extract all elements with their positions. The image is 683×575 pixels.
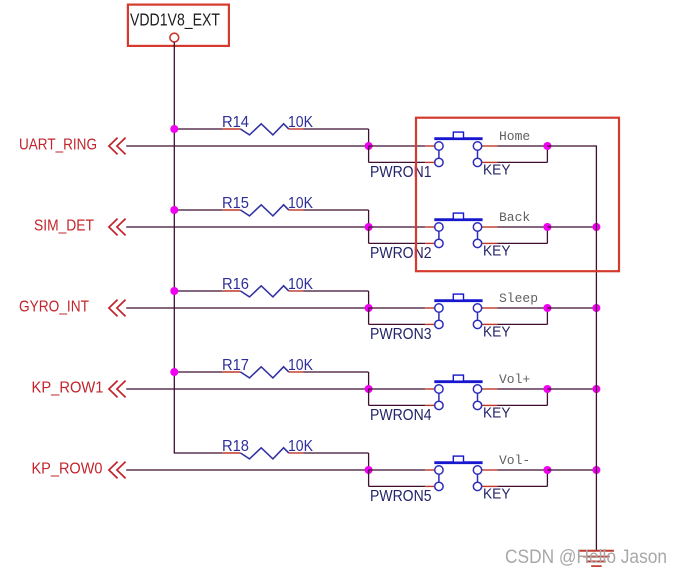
pushbutton switch PWRON1 (Home key) <box>425 132 497 166</box>
wire upper branch to switch pin 1 <box>369 145 426 147</box>
wire KP_ROW0 horizontal <box>126 469 368 471</box>
label key name Vol+ <box>499 372 530 387</box>
port chevron KP_ROW0 <box>109 462 126 479</box>
svg-text:KP_ROW1: KP_ROW1 <box>32 380 104 397</box>
wire KP_ROW1 horizontal <box>126 388 368 390</box>
junction node key output row 2 <box>543 223 551 231</box>
watermark text <box>505 546 667 568</box>
wire resistor row R14 right segment <box>304 128 369 130</box>
wire to right bus <box>547 469 596 471</box>
node SIM_DET net label <box>34 218 94 235</box>
svg-text:R18: R18 <box>222 438 249 455</box>
svg-text:R17: R17 <box>222 357 249 374</box>
junction node at R14/UART_RING <box>365 142 373 150</box>
wire GYRO_INT horizontal <box>126 307 368 309</box>
wire right bus to ground <box>595 145 597 550</box>
svg-text:KEY: KEY <box>483 405 511 422</box>
svg-text:Vol+: Vol+ <box>499 372 530 387</box>
svg-text:R14: R14 <box>222 114 249 131</box>
junction node key output row 3 <box>543 304 551 312</box>
label PWRON3 <box>370 326 432 343</box>
port chevron KP_ROW1 <box>109 381 126 398</box>
svg-text:SIM_DET: SIM_DET <box>34 218 94 235</box>
wire drop from R15 to node <box>368 210 370 227</box>
junction node key output row 4 <box>543 385 551 393</box>
label key name Sleep <box>499 291 538 306</box>
svg-text:KEY: KEY <box>483 486 511 503</box>
svg-text:KEY: KEY <box>483 243 511 260</box>
junction node on bus row 5 <box>592 466 600 474</box>
svg-text:10K: 10K <box>288 357 314 374</box>
power symbol VDD1V8_EXT <box>130 10 220 42</box>
svg-text:Vol-: Vol- <box>499 453 530 468</box>
red annotation box around Home and Back keys <box>416 118 619 272</box>
svg-text:R16: R16 <box>222 276 249 293</box>
svg-text:VDD1V8_EXT: VDD1V8_EXT <box>130 10 220 31</box>
wire switch output top <box>498 388 548 390</box>
junction node trunk row 4 <box>170 368 178 376</box>
label PWRON1 <box>370 164 432 181</box>
wire resistor row R16 right segment <box>304 290 369 292</box>
svg-text:GYRO_INT: GYRO_INT <box>19 299 89 316</box>
node KP_ROW0 net label <box>32 461 103 478</box>
label KEY <box>483 243 511 260</box>
wire upper branch to switch pin 1 <box>369 307 426 309</box>
wire drop from R14 to node <box>368 129 370 146</box>
label KEY <box>483 405 511 422</box>
wire resistor row R15 left segment <box>174 209 222 211</box>
wire resistor row R16 left segment <box>174 290 222 292</box>
wire switch output top <box>498 226 548 228</box>
svg-text:PWRON1: PWRON1 <box>370 164 432 181</box>
wire lower branch to switch pin 2 <box>368 389 370 405</box>
wire switch output bottom loop <box>498 242 548 244</box>
pushbutton switch PWRON3 (Sleep key) <box>425 294 497 328</box>
wire switch output bottom loop <box>498 404 548 406</box>
wire to right bus <box>547 145 596 147</box>
svg-text:PWRON5: PWRON5 <box>370 488 432 505</box>
resistor R15 10K <box>222 195 314 216</box>
wire switch output top <box>498 469 548 471</box>
red annotation box around VDD1V8_EXT <box>128 5 229 46</box>
svg-text:PWRON4: PWRON4 <box>370 407 432 424</box>
label key name Vol- <box>499 453 530 468</box>
svg-text:KEY: KEY <box>483 162 511 179</box>
label key name Back <box>499 210 530 225</box>
wire VDD trunk vertical <box>173 42 175 453</box>
wire resistor row R17 left segment <box>174 371 222 373</box>
port chevron GYRO_INT <box>109 300 126 317</box>
node UART_RING net label <box>19 137 97 154</box>
label PWRON5 <box>370 488 432 505</box>
resistor R18 10K <box>222 438 314 459</box>
wire to right bus <box>547 307 596 309</box>
wire drop from R16 to node <box>368 291 370 308</box>
node GYRO_INT net label <box>19 299 89 316</box>
wire lower branch to switch pin 2 <box>368 227 370 243</box>
junction node on bus row 3 <box>592 304 600 312</box>
svg-text:UART_RING: UART_RING <box>19 137 97 154</box>
wire lower branch to switch pin 2 <box>368 470 370 486</box>
wire lower branch to switch pin 2 <box>368 308 370 324</box>
svg-text:10K: 10K <box>288 438 314 455</box>
wire resistor row R15 right segment <box>304 209 369 211</box>
ground symbol <box>579 551 614 566</box>
wire switch output top <box>498 145 548 147</box>
junction node trunk row 1 <box>170 125 178 133</box>
label PWRON4 <box>370 407 432 424</box>
junction node at R15/SIM_DET <box>365 223 373 231</box>
wire drop from R17 to node <box>368 372 370 389</box>
svg-text:PWRON2: PWRON2 <box>370 245 432 262</box>
wire SIM_DET horizontal <box>126 226 368 228</box>
svg-text:Sleep: Sleep <box>499 291 538 306</box>
junction node on bus row 2 <box>592 223 600 231</box>
svg-text:10K: 10K <box>288 195 314 212</box>
wire upper branch to switch pin 1 <box>369 388 426 390</box>
wire switch output bottom loop <box>498 323 548 325</box>
svg-text:CSDN @Hello Jason: CSDN @Hello Jason <box>505 546 667 568</box>
junction node on bus row 4 <box>592 385 600 393</box>
junction node at R16/GYRO_INT <box>365 304 373 312</box>
wire upper branch to switch pin 1 <box>369 226 426 228</box>
wire UART_RING horizontal <box>126 145 368 147</box>
svg-text:10K: 10K <box>288 114 314 131</box>
wire drop from R18 to node <box>368 453 370 470</box>
wire switch output top <box>498 307 548 309</box>
port chevron UART_RING <box>109 138 126 155</box>
svg-text:KP_ROW0: KP_ROW0 <box>32 461 103 478</box>
wire to right bus <box>547 226 596 228</box>
port chevron SIM_DET <box>109 219 126 236</box>
junction node at R18/KP_ROW0 <box>365 466 373 474</box>
junction node at R17/KP_ROW1 <box>365 385 373 393</box>
label KEY <box>483 486 511 503</box>
junction node trunk row 2 <box>170 206 178 214</box>
wire trunk elbow to R18 <box>174 452 223 454</box>
label PWRON2 <box>370 245 432 262</box>
resistor R16 10K <box>222 276 314 297</box>
junction node trunk row 3 <box>170 287 178 295</box>
node KP_ROW1 net label <box>32 380 104 397</box>
svg-text:R15: R15 <box>222 195 249 212</box>
wire resistor row R14 left segment <box>174 128 222 130</box>
wire switch output bottom loop <box>498 161 548 163</box>
wire switch output bottom loop <box>498 485 548 487</box>
junction node key output row 5 <box>543 466 551 474</box>
svg-text:10K: 10K <box>288 276 314 293</box>
wire to right bus <box>547 388 596 390</box>
svg-text:Home: Home <box>499 129 530 144</box>
svg-text:KEY: KEY <box>483 324 511 341</box>
svg-text:PWRON3: PWRON3 <box>370 326 432 343</box>
svg-text:Back: Back <box>499 210 530 225</box>
resistor R14 10K <box>222 114 314 135</box>
wire lower branch to switch pin 2 <box>368 146 370 162</box>
pushbutton switch PWRON5 (Vol- key) <box>425 456 497 490</box>
wire upper branch to switch pin 1 <box>369 469 426 471</box>
wire resistor row R17 right segment <box>304 371 369 373</box>
pushbutton switch PWRON4 (Vol+ key) <box>425 375 497 409</box>
label KEY <box>483 162 511 179</box>
pushbutton switch PWRON2 (Back key) <box>425 213 497 247</box>
label key name Home <box>499 129 530 144</box>
wire resistor row R18 right segment <box>304 452 369 454</box>
label KEY <box>483 324 511 341</box>
resistor R17 10K <box>222 357 314 378</box>
junction node key output row 1 <box>543 142 551 150</box>
